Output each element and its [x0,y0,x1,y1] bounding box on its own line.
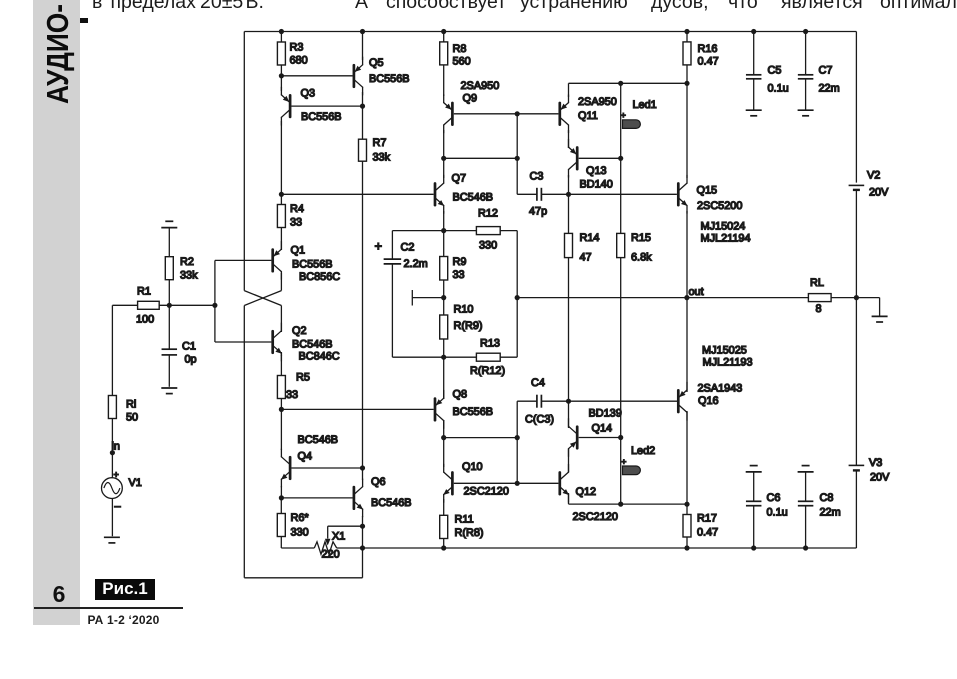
wire Q1 collector to cross [244,273,281,306]
junction R16 bottom [684,81,689,86]
junction R4 node [279,192,284,197]
transistor Q10 [443,461,509,502]
wire C6 leads [753,472,755,548]
resistor R13 [470,338,505,378]
svg-text:BC556B: BC556B [369,73,410,85]
wire R5 node to Q8 base [281,408,433,410]
wire input box to Q1 Q2 bases [215,260,272,342]
resistor R17 [683,513,718,539]
wire top supply rail [244,31,856,33]
wire Q15 emitter to out [686,211,688,298]
wire Q2 collector from cross [280,306,282,333]
wire X1 node down [362,526,364,548]
svg-text:BC856C: BC856C [299,271,340,283]
wire R14 leads [568,194,570,401]
ground under V1 [104,537,120,543]
wire C8 leads [805,472,807,548]
capacitor C1 [162,341,197,366]
ground at output [872,316,888,322]
svg-text:Q1: Q1 [291,245,306,257]
junction R14 bottom [566,399,571,404]
junction Led2 bottom [618,502,623,507]
svg-text:Q7: Q7 [452,173,467,185]
transistor Q9 [444,80,500,133]
junction Q4 base [360,465,365,470]
wire Q16 collector to R17 [686,411,688,548]
svg-text:Q13: Q13 [586,165,607,177]
junction top rail R8 [441,29,446,34]
svg-text:2SC2120: 2SC2120 [573,511,618,523]
wire Q10 base to Q12 base [454,482,559,484]
svg-text:C(C3): C(C3) [525,414,554,426]
wire input node [112,304,214,306]
capacitor C5 [746,65,789,95]
footer magazine name [88,613,160,627]
svg-text:–: – [115,501,122,513]
potentiometer X1 [314,531,345,561]
wire Q14 emitter to Q12 collector [568,449,570,472]
wire R16 leads [686,32,688,84]
svg-text:Q11: Q11 [578,110,598,122]
wire R7 leads [362,106,364,468]
transistor Q3 [281,87,341,125]
svg-text:BC846C: BC846C [299,351,340,363]
wire Led1 vertical [620,83,622,158]
svg-text:Q10: Q10 [462,461,483,473]
svg-text:Led1: Led1 [633,99,657,111]
ground under C1 [161,388,177,394]
junction bottom rail C6 [751,545,756,550]
junction Q14 base [618,435,623,440]
wire R16 node to Q15 collector [686,83,688,178]
junction bottom rail X1 [360,545,365,550]
wire Q7 collector stub [443,158,445,178]
svg-text:+: + [621,457,626,467]
junction top rail Q5 [360,29,365,34]
wire C7 leads [805,32,807,111]
svg-text:33: 33 [453,269,465,281]
wire R8 leads [443,32,445,97]
svg-text:V2: V2 [867,170,880,182]
wire feedback box bottom [392,356,517,358]
svg-text:BC556B: BC556B [292,259,333,271]
junction R5 bottom [279,407,284,412]
wire node 158 to C3 column [444,157,518,159]
junction C3 column top [515,111,520,116]
transistor Q7 [435,173,493,214]
junction Q13 collector R14 [566,192,571,197]
rail symbol above R2 [161,221,177,227]
wire Q6 emitter stub [362,516,364,526]
svg-text:RL: RL [810,277,824,289]
resistor R8 [440,42,471,68]
svg-text:Q6: Q6 [371,476,386,488]
transistor Q5 [354,57,410,95]
svg-text:BD140: BD140 [580,179,613,191]
svg-text:R5: R5 [296,372,310,384]
svg-text:Q5: Q5 [369,57,384,69]
svg-text:V3: V3 [869,457,882,469]
svg-text:R8: R8 [453,43,467,55]
junction top rail C7 [803,29,808,34]
junction top rail R3 [279,29,284,34]
wire Q11 emitter to 83-rail [569,83,688,97]
wire C3 column vertical [517,114,537,195]
node in [110,450,115,455]
junction Q6 emitter [360,524,365,529]
svg-text:R9: R9 [453,256,467,268]
node in label [112,441,120,453]
junction R1 R2 C1 [167,303,172,308]
resistor R5 [277,372,310,402]
page number 6 [44,581,74,608]
wire X1 terminals [281,547,362,549]
transistor Q15 [678,175,750,244]
voltage source V1 [102,470,142,513]
wire Q13 collector stub [568,175,570,194]
rail symbol above C8 [798,466,814,472]
wire node R3 to Q5 base [281,75,352,77]
resistor Ri [108,396,138,424]
junction bottom rail R11 [441,545,446,550]
junction R10 bottom [441,355,446,360]
junction R3 Q5 base [279,73,284,78]
svg-text:Q2: Q2 [292,325,307,337]
svg-text:33k: 33k [180,270,198,282]
svg-text:R6*: R6* [291,512,310,524]
svg-text:BC556B: BC556B [453,406,494,418]
svg-text:R(R8): R(R8) [455,527,484,539]
svg-text:Q8: Q8 [453,389,468,401]
capacitor C2 [375,239,428,271]
svg-text:330: 330 [479,240,497,252]
wire Q16 emitter to out [686,298,688,392]
svg-text:X1: X1 [332,531,345,543]
svg-text:33: 33 [290,217,302,229]
transistor Q12 [560,464,618,523]
footer rule [34,607,183,609]
LED Led2 [621,445,655,475]
wire Q4 base to Q6 collector [291,467,362,469]
junction Led1 bottom [618,156,623,161]
junction out node [684,295,689,300]
wire Q12 emitter node [569,493,688,504]
svg-text:V1: V1 [129,477,142,489]
wire Q8 collector node [444,420,518,467]
wire C5 leads [753,32,755,111]
wire Q5 emitter to rail [362,32,364,61]
wire Q3 base to R7 node [291,105,362,107]
wire left box edge from rail [243,32,245,291]
svg-text:R11: R11 [455,514,474,526]
resistor R7 [359,137,391,164]
node out label [689,286,704,298]
svg-text:C5: C5 [768,65,782,77]
wire left feedback down [244,306,362,578]
wire mid node to V3 [855,298,857,466]
svg-text:R12: R12 [478,208,498,220]
resistor R10 [440,304,483,340]
svg-text:8: 8 [816,303,822,315]
svg-text:C6: C6 [767,492,781,504]
transistor Q13 [569,139,613,190]
svg-text:0.47: 0.47 [697,527,718,539]
svg-text:R16: R16 [698,43,718,55]
svg-text:560: 560 [453,56,471,68]
svg-text:R3: R3 [290,42,304,54]
svg-text:2SA950: 2SA950 [461,80,500,92]
transistor Q11 [560,95,617,133]
wire Q2 emitter stub [280,352,282,356]
junction bottom rail C8 [803,545,808,550]
wire Q6 collector stub [362,468,364,480]
svg-text:0.1u: 0.1u [767,507,788,519]
svg-text:BC546B: BC546B [371,497,412,509]
transistor Q6 [354,476,412,517]
svg-text:33k: 33k [373,152,391,164]
svg-text:Led2: Led2 [631,445,655,457]
svg-text:Q12: Q12 [576,486,597,498]
junction R9 R10 mid [441,295,446,300]
svg-text:20V: 20V [869,187,889,199]
wire R5 leads [280,355,282,409]
svg-text:47p: 47p [529,206,547,218]
svg-text:R1: R1 [137,286,151,298]
wire Q3 collector to R4 node [280,121,282,194]
svg-text:C7: C7 [819,65,833,77]
junction Led1 top [618,81,623,86]
wire R2 leads [168,228,170,306]
transistor Q4 [281,434,338,487]
wire V2 to ground mid node [855,190,857,298]
svg-text:C3: C3 [530,171,544,183]
svg-text:R7: R7 [373,137,387,149]
svg-text:MJL21194: MJL21194 [701,233,751,245]
wire V3 to bottom rail [363,470,857,548]
LED Led1 [621,99,657,128]
svg-text:R10: R10 [454,304,474,316]
svg-text:33: 33 [286,389,298,401]
resistor R11 [440,514,484,540]
svg-text:C2: C2 [401,242,415,254]
resistor RL [808,277,831,315]
wire R5 node to Q4 collector [280,409,282,450]
black text fragment top left [78,18,88,23]
junction R17 top [684,502,689,507]
svg-text:C8: C8 [820,492,834,504]
wire C2 left edge [391,231,393,358]
svg-text:Q4: Q4 [298,451,313,463]
voltage source V3 [849,457,891,484]
svg-text:BC556B: BC556B [301,111,342,123]
svg-text:47: 47 [580,252,592,264]
wire out node [517,297,856,299]
figure label box [95,579,155,599]
resistor R15 [617,232,652,264]
wire feedback box top [392,230,517,232]
wire Q4 emitter node [281,486,352,498]
junction Q5 collector R7 [360,104,365,109]
resistor R4 [277,203,304,229]
wire source column [111,305,113,536]
svg-text:20V: 20V [870,472,890,484]
svg-text:R17: R17 [697,513,717,525]
junction mid supply [854,295,859,300]
svg-text:Q9: Q9 [463,93,478,105]
svg-text:out: out [689,286,704,298]
svg-text:Q14: Q14 [592,423,613,435]
svg-text:+: + [114,470,119,480]
ground under C7 [798,110,814,116]
resistor R12 [476,208,500,252]
svg-text:2.2m: 2.2m [404,258,428,270]
wire R15 leads [620,158,622,437]
transistor Q14 [569,408,622,457]
resistor R2 [165,256,198,282]
svg-text:BC546B: BC546B [292,339,333,351]
svg-text:6.8k: 6.8k [631,252,652,264]
transistor Q16 [678,345,752,421]
wire Q14 base to Led2 node [579,437,621,439]
wire X1 wiper [328,526,363,538]
resistor R1 [136,286,159,326]
junction Q7 emitter [441,228,446,233]
svg-text:2SA950: 2SA950 [578,96,617,108]
rail symbol above C6 [746,466,762,472]
junction top rail C5 [751,29,756,34]
sidebar vertical title [40,4,76,104]
wire Q7 emitter stub [443,211,445,231]
wire out to ground tap [856,298,879,317]
svg-text:22m: 22m [820,507,841,519]
voltage source V2 [849,170,890,199]
svg-text:R13: R13 [480,338,500,350]
svg-text:MJ15024: MJ15024 [701,221,746,233]
svg-text:680: 680 [290,55,308,67]
wire C4 column [517,401,537,483]
wire R3 leads [280,32,282,76]
wire Led2 vertical [620,438,622,505]
resistor R9 [440,256,467,281]
wire Q5 collector down [362,92,364,106]
ground under C5 [746,110,762,116]
wire right rail down to V2 [855,32,857,183]
capacitor C8 [798,492,841,519]
transistor Q8 [435,389,493,429]
wire Q9 collector stub [443,130,445,158]
svg-text:Q15: Q15 [697,185,718,197]
junction C4 column bottom [515,481,520,486]
svg-text:Q16: Q16 [698,395,719,407]
svg-text:2SC2120: 2SC2120 [464,486,509,498]
capacitor C3 [529,171,547,218]
wire C1 leads [168,305,170,387]
junction Q4 emitter [279,495,284,500]
svg-text:C4: C4 [531,377,545,389]
capacitor C7 [798,65,840,95]
svg-text:330: 330 [291,527,309,539]
wire R9 R10 column [443,231,445,399]
svg-text:R4: R4 [290,203,304,215]
svg-text:R14: R14 [580,232,600,244]
wire R4 leads [280,194,282,246]
svg-text:R(R12): R(R12) [470,365,505,377]
wire Q10 emitter to R11 [443,499,445,548]
transistor Q2 [273,323,340,363]
svg-text:100: 100 [136,314,154,326]
wire Q11 collector to Q13 emitter [568,130,570,148]
junction C4 column top [515,435,520,440]
svg-text:220: 220 [322,549,340,561]
junction bottom rail R17 [684,545,689,550]
wire Q9 base to Q11 base [454,113,559,115]
wire Q1 emitter stub [280,246,282,250]
svg-text:MJ15025: MJ15025 [702,345,747,357]
svg-text:Q3: Q3 [301,88,316,100]
magazine sidebar strip [33,0,80,625]
wire cross diagonal A [244,291,281,306]
capacitor C6 [746,492,788,519]
svg-text:+: + [375,239,383,254]
svg-text:0.47: 0.47 [698,56,719,68]
junction C3 column mid [515,156,520,161]
svg-text:R(R9): R(R9) [454,320,483,332]
svg-text:MJL21193: MJL21193 [703,357,753,369]
svg-text:22m: 22m [819,83,840,95]
wire feedback flag lead [412,290,443,306]
wire C4 to Q16 base [541,400,677,402]
junction top rail R16 [684,29,689,34]
svg-text:2SC5200: 2SC5200 [697,200,742,212]
svg-text:2SA1943: 2SA1943 [698,383,743,395]
wire feedback box right edge [516,231,518,358]
svg-text:Ri: Ri [126,399,136,411]
svg-text:BC546B: BC546B [298,434,339,446]
junction input box [212,303,217,308]
wire R6 leads [280,498,282,548]
wire C3 to Q15 base [541,193,677,195]
svg-text:0.1u: 0.1u [768,83,789,95]
junction Q7 collector [441,156,446,161]
resistor R3 [277,42,307,67]
wire Q3 emitter stub [280,76,282,91]
svg-text:BD139: BD139 [589,408,622,420]
svg-text:0p: 0p [185,354,197,366]
svg-text:+: + [621,110,626,120]
svg-text:BC546B: BC546B [453,192,494,204]
wire Q13 base to Led1 node [579,157,621,159]
resistor R14 [565,232,600,264]
svg-text:R15: R15 [631,232,651,244]
wire R4 node to Q7 base [281,193,433,195]
svg-text:C1: C1 [182,341,196,353]
resistor R6 [277,512,309,539]
transistor Q1 [273,241,341,283]
junction Q8 collector [441,435,446,440]
svg-text:50: 50 [126,412,138,424]
junction out left [515,295,520,300]
wire Q14 collector stub [568,401,570,428]
capacitor C4 [525,377,554,426]
resistor R16 [683,42,719,68]
svg-text:R2: R2 [180,256,194,268]
